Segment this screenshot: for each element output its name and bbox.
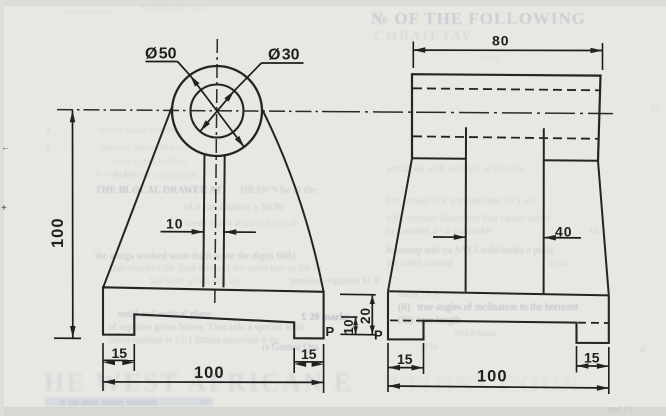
svg-text:DRAWN be at the: DRAWN be at the	[240, 185, 318, 196]
svg-text:100: 100	[49, 217, 67, 248]
front view boss outer circle	[172, 66, 262, 156]
svg-text:P: P	[326, 324, 335, 339]
front view vertical centerline	[215, 39, 218, 303]
side view base top edge	[388, 291, 609, 295]
dimension 15 right foot side view	[577, 365, 609, 367]
dimension 15 left foot front view	[103, 359, 134, 361]
side view boss bottom right segment	[544, 159, 599, 162]
front view base outline with feet	[103, 287, 324, 338]
svg-text:19: 19	[650, 104, 660, 115]
svg-text:80: 80	[492, 33, 510, 49]
dimension 10 notch height	[355, 317, 357, 334]
svg-text:15: 15	[301, 346, 317, 362]
side view hidden line upper	[413, 88, 599, 90]
svg-text:min plate seats: min plate seats	[65, 7, 113, 16]
svg-text:20: 20	[358, 307, 373, 324]
svg-text:no: no	[200, 396, 210, 406]
front view left slant side	[103, 107, 172, 287]
svg-text:the antiga worked store thath: the antiga worked store thath acute the …	[95, 251, 297, 262]
svg-text:CØΒΛΙΕΤΔΥ: CØΒΛΙΕΤΔΥ	[374, 29, 473, 44]
front view rib right edge	[224, 155, 225, 288]
svg-text:10: 10	[341, 319, 356, 334]
hidden notch line left foot side view	[390, 319, 424, 321]
svg-text:40: 40	[555, 224, 573, 240]
svg-text:(ii) true angles of inclinat: (ii) true angles of inclination to the h…	[398, 302, 578, 313]
extension tick notch level	[341, 316, 357, 318]
front view rib left edge	[203, 154, 204, 288]
svg-text:housetop and tra SAE1 solicitu: housetop and tra SAE1 solicitudes a potl…	[386, 245, 554, 256]
svg-text:rd it has a nature a 58(80: rd it has a nature a 58(80	[184, 202, 283, 213]
underline dia 30 label	[261, 62, 303, 64]
svg-text:2.: 2.	[46, 142, 53, 152]
svg-text:Class: Class	[480, 52, 500, 62]
horizontal centerline left part	[57, 110, 330, 112]
svg-text:sheed and it achieved by sub: sheed and it achieved by sub	[184, 218, 299, 229]
svg-text:with obvious distemper that va: with obvious distemper that variab tamid	[386, 213, 550, 224]
svg-text:15: 15	[584, 350, 600, 366]
dimension 10 rib width	[161, 231, 204, 233]
svg-text:til: til	[590, 226, 599, 237]
svg-text:15: 15	[112, 345, 128, 361]
svg-text:smolder regained M if: smolder regained M if	[290, 276, 380, 287]
svg-text:100: 100	[477, 368, 508, 386]
side view rib front edge	[465, 127, 467, 291]
svg-text:←: ←	[1, 142, 10, 152]
svg-text:d: d	[640, 344, 645, 355]
svg-text:of supplies given below. That: of supplies given below. That axle a spe…	[108, 322, 305, 333]
svg-text:+: +	[1, 203, 7, 214]
svg-text:se na: se na	[548, 258, 569, 269]
side view hidden line lower	[413, 136, 598, 139]
svg-text:to a amidst a · a wablanke: to a amidst a · a wablanke	[386, 226, 491, 237]
dimension line diameter 30	[200, 91, 234, 132]
side view left slant edge	[388, 158, 412, 291]
dimension 15 left foot side view	[388, 367, 424, 369]
dimension 40 rib depth	[433, 236, 466, 238]
dimension 20 base height	[371, 295, 373, 335]
svg-text:Por versed to it anytime than: Por versed to it anytime than 10 a sou	[386, 196, 537, 207]
underline dia 50 label	[146, 61, 178, 63]
side view base outline with feet	[388, 291, 609, 343]
dimension 100 height left	[72, 110, 74, 338]
front view right slant side	[262, 109, 324, 292]
svg-text:Ø 30: Ø 30	[268, 47, 300, 64]
svg-text:has been given this say: has been given this say	[150, 276, 242, 287]
svg-text:and taped with weddser of till: and taped with weddser of till sure	[386, 164, 525, 175]
svg-text:15: 15	[397, 351, 413, 367]
svg-text:100: 100	[194, 364, 225, 382]
extension tick base top level	[340, 293, 376, 296]
svg-text:the 10 assael wheeling: the 10 assael wheeling	[100, 125, 182, 135]
svg-text:etu keen uitle von: etu keen uitle von	[140, 2, 205, 12]
svg-text:№ OF THE FOLLOWING: № OF THE FOLLOWING	[371, 9, 586, 28]
hidden notch line right foot side view	[578, 322, 609, 324]
svg-text:10: 10	[166, 216, 184, 232]
side view boss outline	[412, 74, 601, 161]
extension tick base bottom level	[340, 333, 375, 336]
svg-text:and how palesmith a hui: and how palesmith a hui	[100, 142, 188, 152]
front view bore inner circle	[191, 85, 244, 138]
side view boss bottom left segment	[412, 157, 466, 160]
side view extension lines below base	[387, 343, 389, 392]
svg-text:is the most sedate stewards: is the most sedate stewards	[60, 397, 158, 407]
svg-text:lo that plane: lo that plane	[95, 168, 140, 178]
svg-text:and 13: and 13	[608, 404, 633, 414]
svg-text:1.: 1.	[46, 125, 53, 135]
svg-text:Ø 50: Ø 50	[145, 46, 177, 63]
horizontal centerline right part	[330, 112, 613, 114]
dimension 15 right foot front view	[294, 361, 323, 363]
front view extension lines below base	[102, 343, 104, 391]
dimension 80 top	[412, 42, 414, 69]
leader line dia 30 label	[234, 63, 261, 91]
dimension 100 base side view	[388, 386, 609, 388]
side view rib back edge	[543, 128, 545, 293]
side view right slant edge	[598, 161, 609, 295]
svg-text:poko tanal: poko tanal	[455, 328, 497, 339]
leader line dia 50 label	[178, 62, 191, 76]
svg-text:for index normal: for index normal	[386, 258, 453, 269]
dimension line diameter 50	[190, 75, 244, 147]
svg-text:P: P	[374, 328, 383, 343]
extension tick bottom of height dim	[54, 337, 81, 339]
dimension 100 base front view	[103, 381, 324, 384]
